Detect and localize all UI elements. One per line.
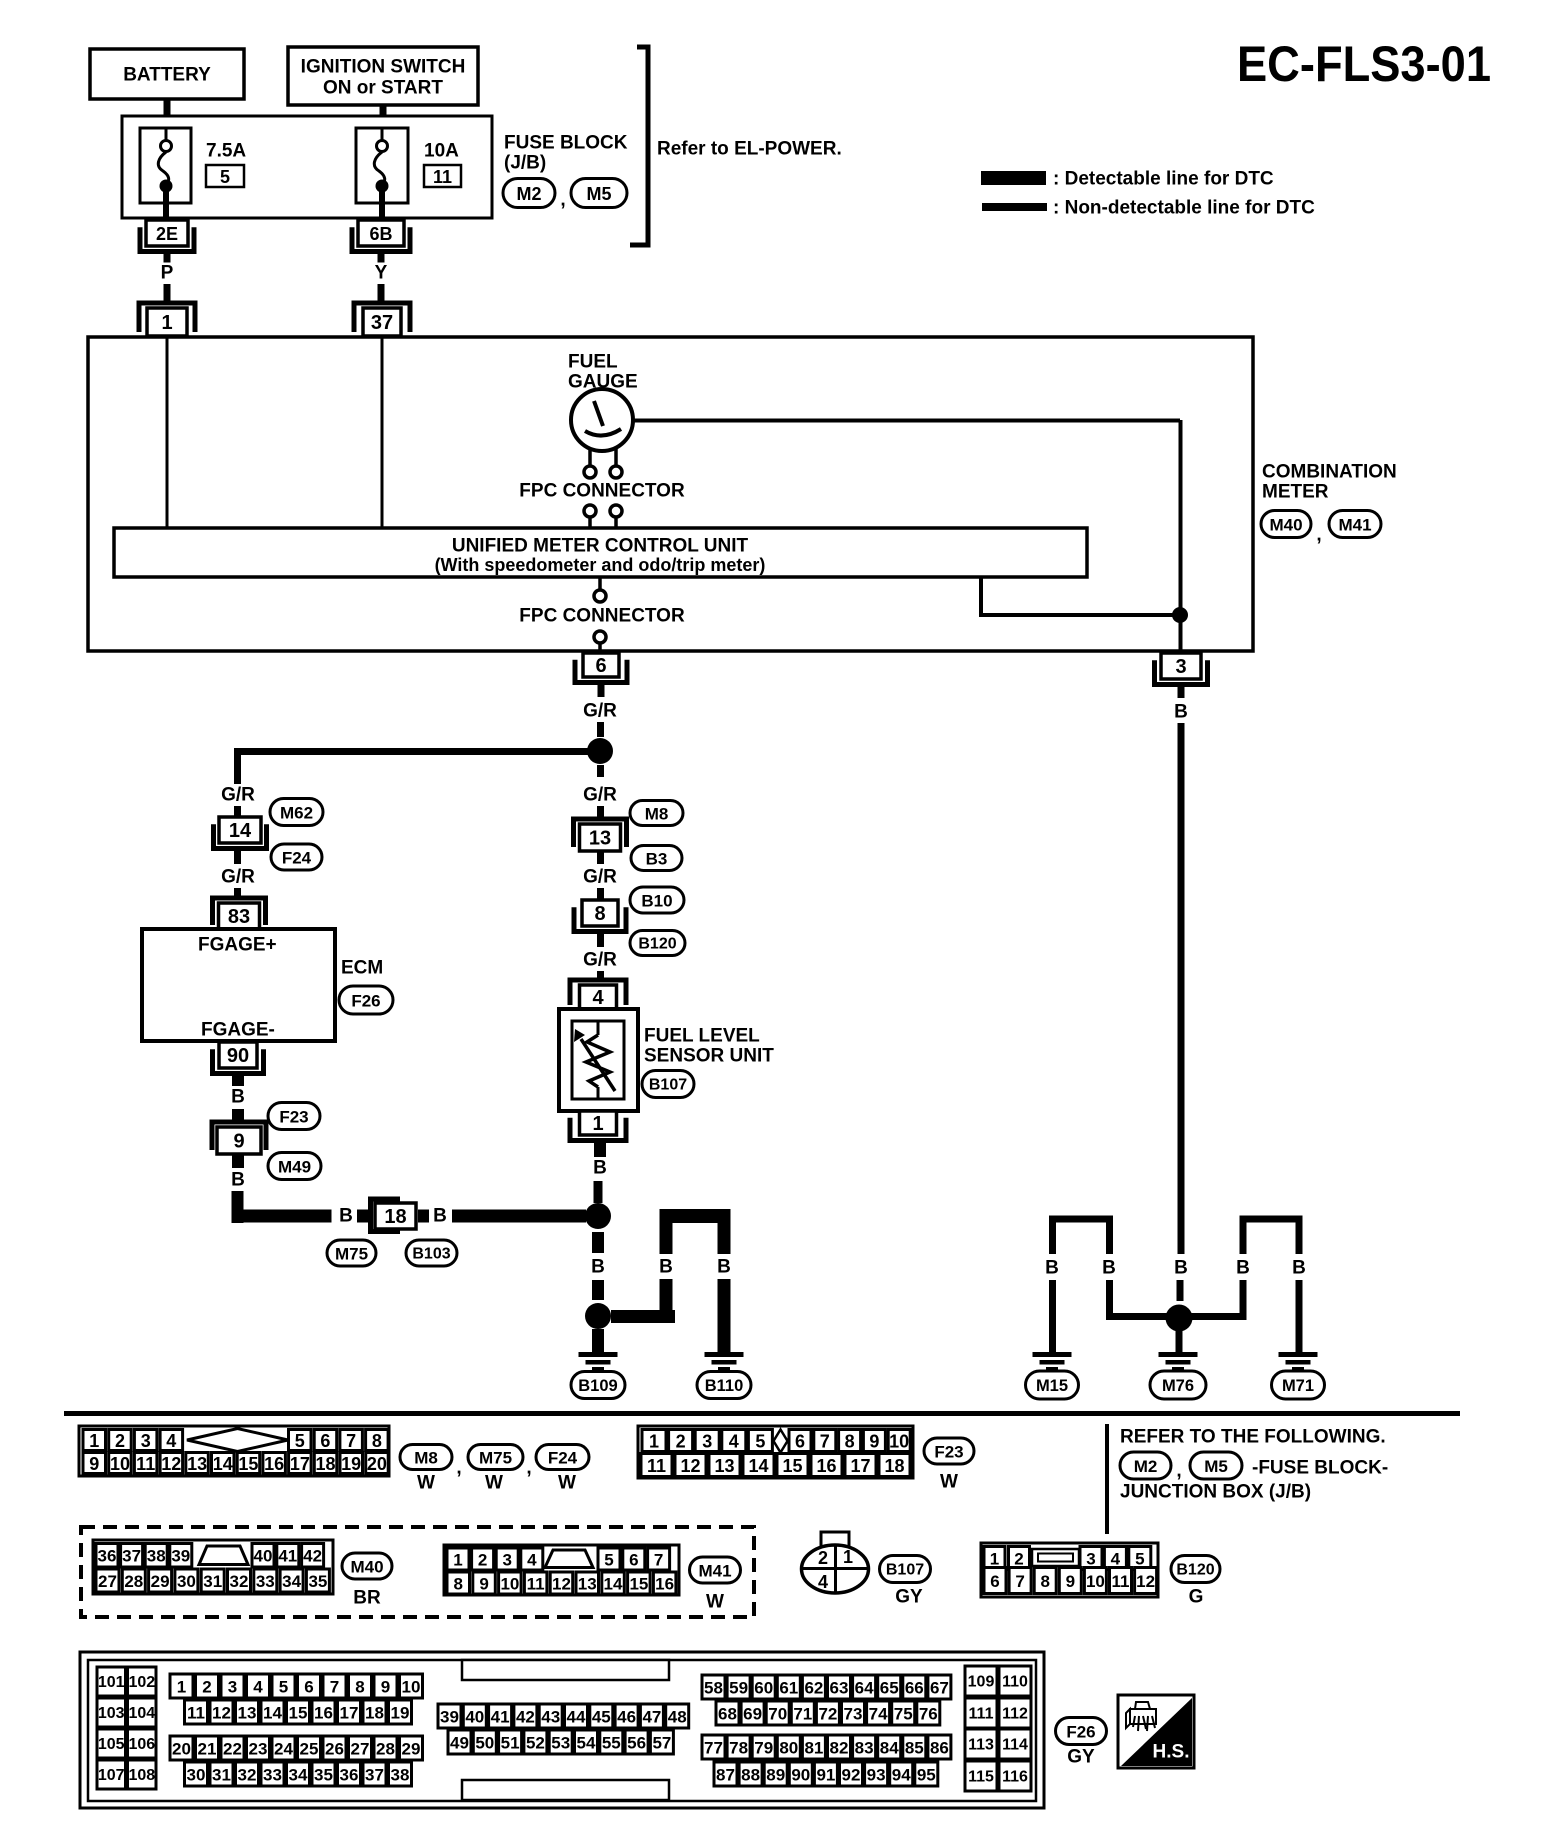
- svg-text:36: 36: [340, 1766, 359, 1785]
- wire stub above conn 4: [597, 971, 604, 981]
- svg-text:GY: GY: [895, 1587, 923, 1608]
- svg-text:9: 9: [479, 1575, 488, 1594]
- svg-text:45: 45: [592, 1708, 611, 1727]
- connector ref M75: [327, 1240, 376, 1266]
- ECM pins 113-114: [965, 1729, 1031, 1759]
- svg-text:55: 55: [602, 1734, 621, 1753]
- svg-text:14: 14: [229, 820, 252, 842]
- fpc terminal below UMCU upper: [594, 590, 606, 602]
- H.S. data link connector icon: [1118, 1695, 1194, 1768]
- ECM pins 39-48: [438, 1704, 689, 1728]
- svg-text:30: 30: [187, 1766, 206, 1785]
- svg-text:28: 28: [376, 1740, 395, 1759]
- bracket refer to EL-POWER: [630, 47, 648, 245]
- svg-text:W: W: [940, 1472, 958, 1493]
- svg-text:18: 18: [365, 1704, 384, 1723]
- legend detectable line sample: [981, 171, 1046, 185]
- svg-text:M40: M40: [350, 1558, 383, 1577]
- svg-text:78: 78: [729, 1739, 748, 1758]
- svg-text:6B: 6B: [369, 224, 392, 244]
- svg-text:27: 27: [98, 1572, 117, 1591]
- svg-text:20: 20: [367, 1454, 387, 1474]
- svg-text:2: 2: [478, 1551, 487, 1570]
- connector ref B107 (sensor): [642, 1071, 694, 1098]
- pins 3-5 of B120 view: [1080, 1547, 1151, 1570]
- connector ref F26 view: [1056, 1718, 1107, 1745]
- svg-text:B: B: [591, 1257, 605, 1278]
- svg-text:13: 13: [714, 1456, 734, 1476]
- svg-text:18: 18: [884, 1456, 904, 1476]
- svg-text:B: B: [659, 1257, 673, 1278]
- svg-text:2: 2: [818, 1548, 828, 1568]
- svg-text:12: 12: [161, 1454, 181, 1474]
- svg-text:B107: B107: [649, 1077, 687, 1094]
- refer-to separator line: [1105, 1424, 1109, 1534]
- wire junction C to ground B109: [592, 1329, 604, 1352]
- svg-text:8: 8: [372, 1431, 382, 1451]
- svg-text:F24: F24: [282, 849, 312, 868]
- svg-text:4: 4: [166, 1431, 176, 1451]
- ECM pins 20-29: [170, 1736, 423, 1760]
- wire 6B to Y: [378, 252, 385, 263]
- svg-text:53: 53: [551, 1734, 570, 1753]
- svg-text:1: 1: [592, 1113, 603, 1135]
- svg-text:27: 27: [351, 1740, 370, 1759]
- connector pin 14 (M62/F24): [214, 817, 267, 849]
- svg-text:19: 19: [391, 1704, 410, 1723]
- svg-text:106: 106: [128, 1736, 155, 1753]
- svg-text:38: 38: [391, 1766, 410, 1785]
- svg-text:B107: B107: [886, 1562, 924, 1579]
- wire loop to B110 ground: [660, 1209, 731, 1352]
- svg-text:72: 72: [818, 1705, 837, 1724]
- svg-text:2: 2: [115, 1431, 125, 1451]
- svg-text:FPC CONNECTOR: FPC CONNECTOR: [519, 481, 685, 502]
- svg-text:M15: M15: [1036, 1377, 1068, 1395]
- svg-text:62: 62: [804, 1679, 823, 1698]
- wire dash junction B down2: [592, 1280, 604, 1300]
- connector ref M5 (fuse block): [571, 179, 627, 208]
- svg-text:16: 16: [655, 1575, 674, 1594]
- pins 1-4 of M41 view: [447, 1548, 543, 1570]
- fuel level sensor pin 1: [570, 1111, 626, 1141]
- svg-text:3: 3: [1175, 656, 1186, 678]
- pins 1-2 of B120 view: [984, 1547, 1030, 1570]
- svg-text:10: 10: [1086, 1572, 1105, 1591]
- gauge bottom stem right: [614, 449, 618, 466]
- fuse 10A symbol: [356, 128, 408, 220]
- svg-text:26: 26: [325, 1740, 344, 1759]
- connector view 20-pin (M8/M75/F24): [79, 1426, 389, 1476]
- svg-text:11: 11: [527, 1575, 545, 1594]
- svg-text:46: 46: [617, 1708, 636, 1727]
- svg-text:13: 13: [589, 828, 611, 850]
- svg-text:B: B: [339, 1206, 353, 1227]
- svg-text:5: 5: [755, 1432, 765, 1452]
- svg-text:18: 18: [384, 1206, 406, 1228]
- svg-text:13: 13: [578, 1575, 597, 1594]
- svg-text:5: 5: [604, 1551, 613, 1570]
- svg-text:6: 6: [990, 1572, 999, 1591]
- svg-text:G/R: G/R: [583, 950, 617, 971]
- fuse1 number box 5: [206, 165, 244, 187]
- svg-text:40: 40: [465, 1708, 484, 1727]
- svg-text:41: 41: [278, 1547, 297, 1566]
- svg-text:G/R: G/R: [583, 867, 617, 888]
- pins 8-16 of M41 view: [447, 1572, 676, 1594]
- ECM pin 83 FGAGE+: [213, 898, 266, 929]
- svg-text:GY: GY: [1067, 1747, 1095, 1768]
- svg-text:5: 5: [279, 1678, 288, 1697]
- svg-text:M2: M2: [516, 184, 541, 204]
- wire inside meter from pin 37: [381, 337, 384, 528]
- svg-text:10A: 10A: [424, 141, 459, 162]
- ground M15: [1033, 1352, 1072, 1371]
- svg-text:4: 4: [1111, 1550, 1121, 1569]
- pins 6-12 of B120 view: [984, 1568, 1157, 1594]
- svg-text:2: 2: [1014, 1550, 1023, 1569]
- wire stub below pin 3: [1178, 684, 1185, 698]
- svg-text:14: 14: [748, 1456, 768, 1476]
- svg-text:30: 30: [177, 1572, 196, 1591]
- svg-text:15: 15: [629, 1575, 648, 1594]
- svg-text:Refer to EL-POWER.: Refer to EL-POWER.: [657, 139, 842, 160]
- svg-text:68: 68: [718, 1705, 737, 1724]
- svg-text:4: 4: [729, 1432, 739, 1452]
- svg-text:64: 64: [855, 1679, 874, 1698]
- svg-text:EC-FLS3-01: EC-FLS3-01: [1237, 36, 1491, 92]
- svg-text:7.5A: 7.5A: [206, 141, 246, 162]
- svg-text:60: 60: [754, 1679, 773, 1698]
- svg-text:29: 29: [151, 1572, 170, 1591]
- wire junction to meter bottom: [1179, 621, 1183, 651]
- svg-text:14: 14: [213, 1454, 233, 1474]
- svg-text:74: 74: [869, 1705, 888, 1724]
- svg-text:1: 1: [161, 312, 172, 334]
- svg-text:12: 12: [1136, 1572, 1155, 1591]
- svg-text:2: 2: [676, 1432, 686, 1452]
- ground B110: [705, 1352, 744, 1371]
- svg-text:1: 1: [843, 1547, 853, 1567]
- ECM pins 105-106: [97, 1729, 156, 1758]
- combination meter box: [88, 337, 1253, 651]
- svg-text:IGNITION SWITCH: IGNITION SWITCH: [301, 57, 466, 78]
- svg-text:89: 89: [766, 1766, 785, 1785]
- svg-text:15: 15: [782, 1456, 802, 1476]
- svg-text:41: 41: [491, 1708, 510, 1727]
- legend non-detectable line sample: [982, 203, 1047, 211]
- svg-text:B110: B110: [705, 1377, 744, 1395]
- svg-text:B: B: [717, 1257, 731, 1278]
- stem to UMCU left: [588, 517, 592, 528]
- svg-text:80: 80: [779, 1739, 798, 1758]
- svg-text:94: 94: [892, 1766, 911, 1785]
- svg-text:(J/B): (J/B): [504, 153, 546, 174]
- ignition switch box: [288, 47, 478, 105]
- svg-text:: Non-detectable line for DTC: : Non-detectable line for DTC: [1053, 198, 1315, 219]
- svg-text:4: 4: [253, 1678, 263, 1697]
- svg-text:36: 36: [98, 1547, 117, 1566]
- svg-text:2E: 2E: [156, 224, 178, 244]
- wire stub below sensor pin 1: [594, 1141, 606, 1157]
- svg-text:B: B: [1292, 1258, 1306, 1279]
- svg-text:B: B: [1236, 1258, 1250, 1279]
- wire M15 loop to junction D: [1110, 1280, 1169, 1317]
- svg-text:109: 109: [968, 1674, 995, 1691]
- svg-text:FUSE BLOCK: FUSE BLOCK: [504, 133, 628, 154]
- ECM pins 87-95: [714, 1762, 938, 1786]
- svg-text:49: 49: [450, 1734, 469, 1753]
- svg-text:90: 90: [791, 1766, 810, 1785]
- svg-text:35: 35: [314, 1766, 333, 1785]
- wire M15 leg down: [1049, 1280, 1056, 1352]
- svg-text:F26: F26: [351, 992, 380, 1011]
- wire dash junction A down: [597, 765, 604, 777]
- wire stub below conn 90: [232, 1073, 244, 1086]
- connector ref M5 bottom: [1190, 1452, 1242, 1479]
- fuse 7.5A symbol: [140, 128, 191, 220]
- svg-text:F26: F26: [1066, 1723, 1095, 1742]
- svg-text:107: 107: [98, 1767, 125, 1784]
- connector ref B120 view: [1171, 1556, 1220, 1583]
- wire dash above conn 13: [597, 806, 604, 818]
- svg-text:11: 11: [1112, 1572, 1130, 1591]
- svg-text:105: 105: [98, 1736, 125, 1753]
- svg-text:102: 102: [128, 1674, 155, 1691]
- svg-text:110: 110: [1002, 1674, 1028, 1691]
- svg-text:103: 103: [98, 1705, 125, 1722]
- svg-text:9: 9: [381, 1678, 390, 1697]
- pins 1-4 of 20-pin view: [83, 1430, 183, 1452]
- svg-text:37: 37: [371, 312, 393, 334]
- svg-text:83: 83: [855, 1739, 874, 1758]
- svg-text:,: ,: [560, 190, 565, 211]
- svg-text:85: 85: [905, 1739, 924, 1758]
- svg-text:17: 17: [850, 1456, 870, 1476]
- ECM pins 111-112: [965, 1698, 1031, 1728]
- wire stub below conn 13: [597, 851, 604, 864]
- svg-text:23: 23: [249, 1740, 268, 1759]
- svg-text:F23: F23: [934, 1443, 963, 1462]
- svg-text:12: 12: [680, 1456, 700, 1476]
- pins 5-7 of M41 view: [598, 1548, 670, 1570]
- svg-text:1: 1: [649, 1432, 659, 1452]
- svg-text:17: 17: [340, 1704, 359, 1723]
- svg-text:SENSOR UNIT: SENSOR UNIT: [644, 1046, 774, 1067]
- svg-text:32: 32: [230, 1572, 249, 1591]
- svg-text:M8: M8: [645, 805, 669, 824]
- svg-text:88: 88: [741, 1766, 760, 1785]
- svg-text:86: 86: [930, 1739, 949, 1758]
- svg-text:G/R: G/R: [583, 701, 617, 722]
- svg-text:15: 15: [289, 1704, 308, 1723]
- svg-text:57: 57: [652, 1734, 671, 1753]
- svg-text:B: B: [433, 1206, 447, 1227]
- svg-text:3: 3: [1086, 1550, 1095, 1569]
- connector pin 13 (M8/B3): [574, 819, 627, 851]
- svg-text:G/R: G/R: [221, 867, 255, 888]
- svg-text:H.S.: H.S.: [1153, 1742, 1190, 1763]
- svg-text:79: 79: [754, 1739, 773, 1758]
- svg-text:B: B: [593, 1158, 607, 1179]
- wire P to connector 1: [164, 284, 171, 303]
- svg-text:FUEL: FUEL: [568, 352, 618, 373]
- fuse block terminal 6B: [352, 220, 410, 252]
- svg-text:84: 84: [880, 1739, 899, 1758]
- ECM connector view outer boxes: [80, 1652, 1044, 1808]
- svg-text:(With speedometer and odo/trip: (With speedometer and odo/trip meter): [435, 555, 766, 575]
- svg-text:33: 33: [263, 1766, 282, 1785]
- svg-text:10: 10: [110, 1454, 130, 1474]
- svg-text:77: 77: [704, 1739, 723, 1758]
- connector ref M49: [268, 1153, 321, 1180]
- connector ref F24 view: [536, 1445, 589, 1470]
- svg-text:15: 15: [238, 1454, 258, 1474]
- unified meter control unit box: [114, 528, 1087, 577]
- svg-text:G: G: [1189, 1587, 1204, 1608]
- svg-text:METER: METER: [1262, 482, 1329, 503]
- svg-text:3: 3: [141, 1431, 151, 1451]
- wire dash above conn 8: [597, 888, 604, 900]
- svg-text:59: 59: [729, 1679, 748, 1698]
- connector ref B10: [630, 887, 684, 913]
- svg-text:17: 17: [290, 1454, 310, 1474]
- pins 11-18 of 18-pin view: [641, 1454, 910, 1477]
- svg-text:FPC CONNECTOR: FPC CONNECTOR: [519, 606, 685, 627]
- svg-text:6: 6: [629, 1551, 638, 1570]
- svg-text:112: 112: [1002, 1706, 1028, 1723]
- svg-text:8: 8: [453, 1575, 462, 1594]
- svg-text:25: 25: [300, 1740, 319, 1759]
- svg-text:1: 1: [177, 1678, 186, 1697]
- svg-text:69: 69: [743, 1705, 762, 1724]
- B120 keying slot: [1032, 1549, 1079, 1566]
- connector ref F26 (ECM): [339, 986, 393, 1014]
- svg-text:8: 8: [355, 1678, 364, 1697]
- svg-text:54: 54: [577, 1734, 596, 1753]
- svg-text:M41: M41: [1338, 516, 1371, 535]
- ECM pins 68-76: [716, 1701, 940, 1725]
- ECM box: [142, 929, 335, 1041]
- svg-text:ON or START: ON or START: [323, 78, 443, 99]
- ECM pins 101-102: [97, 1667, 156, 1696]
- svg-text:F23: F23: [279, 1108, 308, 1127]
- svg-text:40: 40: [254, 1547, 273, 1566]
- svg-text:B109: B109: [578, 1377, 617, 1395]
- svg-text:W: W: [485, 1473, 503, 1494]
- svg-text:4: 4: [818, 1572, 828, 1592]
- svg-text:11: 11: [187, 1704, 205, 1723]
- svg-text:M75: M75: [335, 1245, 368, 1264]
- wire dash left of conn 18: [357, 1210, 368, 1223]
- svg-text:B: B: [1102, 1258, 1116, 1279]
- svg-text:FGAGE+: FGAGE+: [198, 935, 277, 956]
- connector ref M40 view: [342, 1553, 392, 1579]
- battery box: [90, 49, 244, 99]
- svg-text:UNIFIED METER CONTROL UNIT: UNIFIED METER CONTROL UNIT: [452, 536, 749, 557]
- svg-text:9: 9: [89, 1454, 99, 1474]
- svg-text:21: 21: [198, 1740, 217, 1759]
- svg-text:76: 76: [919, 1705, 938, 1724]
- ECM pins 1-10: [170, 1674, 423, 1698]
- svg-text:M71: M71: [1282, 1377, 1314, 1395]
- pins 5-8 of 20-pin view: [289, 1430, 389, 1452]
- svg-text:11: 11: [136, 1454, 155, 1474]
- wire B long down: [1178, 723, 1185, 1254]
- svg-text:B: B: [231, 1087, 245, 1108]
- pins 9-20 of 20-pin view: [83, 1453, 388, 1475]
- svg-text:38: 38: [147, 1547, 166, 1566]
- svg-text:111: 111: [969, 1706, 994, 1723]
- wire junction C to right: [611, 1310, 675, 1323]
- svg-text:5: 5: [220, 167, 230, 187]
- ground M76: [1159, 1352, 1198, 1371]
- svg-text:32: 32: [238, 1766, 257, 1785]
- pins 1-5 of 18-pin view: [642, 1430, 772, 1452]
- svg-text:B: B: [1174, 1258, 1188, 1279]
- svg-text:33: 33: [256, 1572, 275, 1591]
- svg-text:12: 12: [552, 1575, 571, 1594]
- fuel level sensor pin 4: [570, 980, 626, 1009]
- ground label B109: [571, 1372, 625, 1399]
- wire stub below conn 9: [232, 1154, 244, 1168]
- svg-text:70: 70: [768, 1705, 787, 1724]
- connector view B120: [981, 1543, 1158, 1597]
- svg-text:B3: B3: [646, 850, 668, 869]
- wire stub below conn 14: [234, 850, 241, 864]
- svg-text:4: 4: [592, 987, 604, 1009]
- connector ref F24: [271, 844, 322, 870]
- svg-text:F24: F24: [548, 1449, 578, 1468]
- connector pin 9 (F23/M49): [212, 1122, 266, 1154]
- svg-text:4: 4: [527, 1551, 537, 1570]
- ECM pins 49-57: [448, 1730, 673, 1754]
- svg-text:G/R: G/R: [221, 785, 255, 806]
- svg-text:9: 9: [869, 1432, 879, 1452]
- junction node B (ground split): [585, 1203, 611, 1229]
- connector ref M75 view: [468, 1445, 523, 1470]
- wire stub below conn 8: [597, 931, 604, 947]
- ECM view top notch: [462, 1660, 669, 1680]
- svg-text:20: 20: [172, 1740, 191, 1759]
- svg-text:8: 8: [845, 1432, 855, 1452]
- connector view M41: [444, 1545, 679, 1595]
- svg-text:COMBINATION: COMBINATION: [1262, 462, 1397, 483]
- junction node inside meter: [1172, 607, 1188, 623]
- svg-text:B10: B10: [641, 892, 672, 911]
- svg-text:50: 50: [475, 1734, 494, 1753]
- svg-text:87: 87: [716, 1766, 735, 1785]
- M41 keying trapezoid: [545, 1550, 593, 1568]
- svg-text:JUNCTION BOX (J/B): JUNCTION BOX (J/B): [1120, 1482, 1311, 1503]
- svg-text:16: 16: [816, 1456, 836, 1476]
- svg-text:67: 67: [930, 1679, 949, 1698]
- ECM pins 58-67: [702, 1675, 951, 1699]
- svg-text:9: 9: [1066, 1572, 1075, 1591]
- svg-text:56: 56: [627, 1734, 646, 1753]
- svg-text:B120: B120: [1176, 1562, 1214, 1579]
- connector ref M2 bottom: [1120, 1452, 1171, 1479]
- wire M71 leg down: [1296, 1280, 1303, 1352]
- connector pin 18 (M75/B103): [371, 1199, 417, 1232]
- svg-text:58: 58: [704, 1679, 723, 1698]
- wire battery to fuse block: [164, 99, 171, 117]
- svg-text:34: 34: [289, 1766, 308, 1785]
- wire M71 loop to junction D: [1191, 1280, 1243, 1317]
- ECM pins 107-108: [97, 1760, 156, 1789]
- svg-text:43: 43: [541, 1708, 560, 1727]
- svg-text:37: 37: [122, 1547, 141, 1566]
